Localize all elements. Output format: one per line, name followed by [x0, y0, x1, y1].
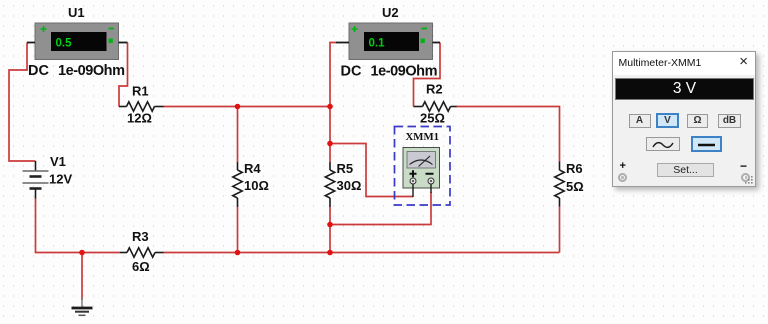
panel resize grip: [745, 176, 754, 185]
panel button A: [629, 114, 651, 128]
resistor R2: [414, 82, 457, 126]
svg-text:5Ω: 5Ω: [566, 179, 584, 194]
wire top bus R1 to R5/U2 node: [163, 106, 330, 108]
panel terminal minus: [741, 173, 750, 182]
svg-text:12Ω: 12Ω: [127, 111, 152, 126]
junction node plus sense on R5 lead: [327, 141, 333, 147]
wire R2 right to R6 top: [456, 107, 560, 162]
ground: [72, 297, 93, 315]
multimeter panel window Multimeter-XMM1: [612, 51, 756, 187]
wire R5 top lead: [329, 107, 331, 163]
junction node minus sense on R5 lead: [327, 222, 333, 228]
wire XMM1 plus sense to R5 top node: [330, 144, 413, 197]
resistor R1: [119, 84, 164, 126]
close button: [739, 53, 748, 70]
panel button DC selected: [691, 136, 722, 152]
junction node R5 bottom: [327, 250, 333, 256]
wire R4 bottom lead: [237, 207, 239, 253]
resistor R4: [233, 161, 269, 207]
svg-text:U1: U1: [68, 5, 85, 20]
battery V1: [23, 154, 73, 199]
ammeter U2: [336, 5, 440, 80]
wire U2 left down to top bus: [330, 43, 336, 107]
panel button sine: [646, 137, 680, 151]
wire ground drop: [81, 253, 83, 301]
svg-text:XMM1: XMM1: [406, 131, 440, 143]
svg-text:R1: R1: [132, 84, 149, 99]
wire R4 top lead: [237, 107, 239, 163]
svg-text:DC: DC: [341, 64, 362, 80]
selection box around XMM1: [395, 127, 451, 206]
panel button Ohm: [687, 114, 708, 128]
svg-text:6Ω: 6Ω: [132, 259, 150, 274]
svg-text:DC: DC: [28, 63, 49, 79]
svg-text:1e-09Ohm: 1e-09Ohm: [58, 63, 125, 79]
junction node R4 bottom: [235, 250, 241, 256]
multimeter icon XMM1: [403, 131, 440, 197]
svg-text:R2: R2: [426, 82, 443, 97]
resistor R6: [555, 161, 584, 207]
svg-text:12V: 12V: [49, 172, 72, 187]
wire bottom bus V1 to R3: [36, 198, 121, 253]
svg-text:R4: R4: [244, 161, 261, 176]
resistor R5: [325, 161, 361, 207]
wire bottom bus R3 to R6: [163, 252, 560, 254]
panel button V selected: [656, 113, 679, 128]
junction node R5 top: [327, 104, 333, 110]
svg-text:0.5: 0.5: [56, 38, 73, 50]
junction node R4 top: [235, 104, 241, 110]
svg-text:U2: U2: [382, 5, 399, 20]
svg-text:1e-09Ohm: 1e-09Ohm: [371, 64, 438, 80]
panel Set button: [657, 163, 714, 177]
svg-text:V1: V1: [50, 154, 66, 169]
wire U1 left to V1 top: [9, 43, 36, 162]
svg-text:0.1: 0.1: [369, 38, 386, 50]
wire U2 right to R2 left: [414, 43, 441, 107]
resistor R3: [120, 229, 164, 274]
panel title bar: [613, 52, 755, 75]
panel display 3V: [615, 78, 754, 100]
wire XMM1 minus sense to R5 bottom node: [330, 192, 431, 225]
junction node ground tap: [79, 250, 85, 256]
panel button dB: [718, 114, 741, 128]
wire R5 bottom lead: [329, 207, 331, 253]
svg-text:10Ω: 10Ω: [244, 178, 269, 193]
svg-text:R6: R6: [566, 161, 583, 176]
panel plus label: [620, 160, 626, 172]
svg-text:R5: R5: [337, 161, 354, 176]
wire U1 right to R1 left: [119, 43, 128, 107]
svg-text:R3: R3: [132, 229, 149, 244]
panel minus label: [740, 159, 747, 173]
svg-text:30Ω: 30Ω: [337, 178, 362, 193]
panel terminal plus: [618, 173, 627, 182]
ammeter U1: [27, 5, 128, 79]
wire R6 bottom lead to bottom bus: [559, 207, 561, 253]
svg-text:25Ω: 25Ω: [420, 111, 445, 126]
